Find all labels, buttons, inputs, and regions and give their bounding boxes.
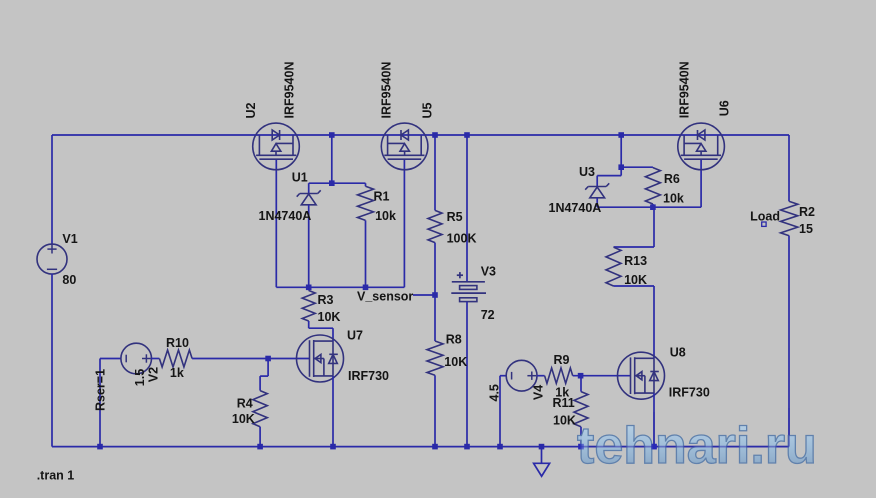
svg-text:R2: R2: [799, 205, 815, 219]
svg-text:IRF9540N: IRF9540N: [380, 62, 394, 119]
svg-text:10K: 10K: [624, 273, 647, 287]
svg-text:72: 72: [481, 308, 495, 322]
svg-text:U1: U1: [292, 170, 308, 184]
svg-text:U8: U8: [670, 346, 686, 360]
svg-text:Load: Load: [750, 210, 780, 224]
svg-text:R13: R13: [624, 254, 647, 268]
svg-text:R9: R9: [554, 353, 570, 367]
svg-text:R4: R4: [237, 397, 253, 411]
svg-text:V2: V2: [147, 367, 161, 382]
svg-text:R5: R5: [447, 210, 463, 224]
svg-text:R1: R1: [374, 189, 390, 203]
svg-text:1N4740A: 1N4740A: [259, 209, 312, 223]
svg-text:R8: R8: [446, 332, 462, 346]
svg-text:10K: 10K: [232, 412, 255, 426]
svg-text:IRF730: IRF730: [348, 369, 389, 383]
svg-text:100K: 100K: [447, 232, 477, 246]
svg-text:80: 80: [62, 273, 76, 287]
svg-text:IRF9540N: IRF9540N: [677, 61, 691, 118]
svg-text:10k: 10k: [663, 192, 684, 206]
svg-text:U2: U2: [244, 102, 258, 118]
svg-text:IRF730: IRF730: [669, 385, 710, 399]
svg-text:10K: 10K: [553, 414, 576, 428]
svg-text:U5: U5: [420, 102, 434, 118]
svg-text:U6: U6: [717, 100, 731, 116]
svg-text:10K: 10K: [444, 355, 467, 369]
svg-text:4.5: 4.5: [487, 384, 501, 401]
svg-text:.tran 1: .tran 1: [37, 469, 75, 483]
svg-text:IRF9540N: IRF9540N: [283, 62, 297, 119]
svg-text:V_sensor: V_sensor: [357, 290, 413, 304]
svg-text:R10: R10: [166, 336, 189, 350]
svg-text:10K: 10K: [318, 310, 341, 324]
svg-text:10k: 10k: [375, 209, 396, 223]
svg-text:V3: V3: [481, 264, 496, 278]
svg-text:1N4740A: 1N4740A: [549, 201, 602, 215]
svg-text:15: 15: [799, 222, 813, 236]
svg-text:R6: R6: [664, 172, 680, 186]
svg-text:R11: R11: [553, 396, 575, 410]
svg-text:Rser=1: Rser=1: [94, 369, 108, 411]
svg-text:U3: U3: [579, 165, 595, 179]
svg-text:1k: 1k: [170, 366, 184, 380]
svg-text:V4: V4: [531, 385, 545, 400]
svg-text:1.5: 1.5: [133, 369, 147, 386]
svg-text:R3: R3: [318, 293, 334, 307]
svg-text:U7: U7: [347, 329, 363, 343]
svg-text:V1: V1: [62, 232, 77, 246]
